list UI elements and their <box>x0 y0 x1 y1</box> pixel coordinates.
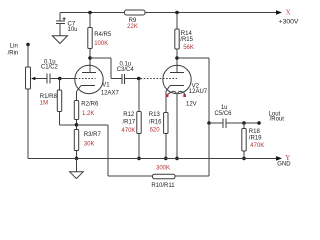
potentiometer volume <box>26 67 36 89</box>
svg-text:/R15: /R15 <box>180 37 193 43</box>
resistor R3/R7 30K <box>74 130 101 159</box>
svg-text:+300V: +300V <box>279 18 299 25</box>
svg-text:/R19: /R19 <box>249 136 262 142</box>
wire pot bottom to ground rail <box>27 89 29 158</box>
svg-text:300K: 300K <box>156 166 170 172</box>
svg-text:R10/R11: R10/R11 <box>151 183 175 189</box>
svg-text:R3/R7: R3/R7 <box>84 132 102 138</box>
svg-text:GND: GND <box>277 162 291 168</box>
heater pin right V2 <box>183 94 186 97</box>
terminal X +300V <box>276 8 299 25</box>
svg-text:56K: 56K <box>183 45 194 51</box>
capacitor C1/C2 0.1u <box>35 59 60 83</box>
wire plate V2 to output <box>177 58 209 123</box>
wire to output terminal <box>244 122 259 124</box>
svg-text:/Rout: /Rout <box>270 117 285 123</box>
svg-text:100K: 100K <box>94 41 108 47</box>
capacitor C5/C6 1u <box>209 105 244 128</box>
wire plate V1 to C3/C4 <box>90 58 122 79</box>
node top rail / R4-R5 <box>88 11 92 15</box>
node plate V2 <box>175 56 179 60</box>
svg-text:470K: 470K <box>250 143 264 149</box>
svg-text:V1: V1 <box>102 83 110 89</box>
svg-text:/Rin: /Rin <box>8 50 19 56</box>
resistor R14/R15 56K <box>175 13 194 59</box>
svg-text:C3/C4: C3/C4 <box>117 67 135 73</box>
node grid V2 <box>137 77 141 81</box>
svg-text:12AU7: 12AU7 <box>189 89 208 95</box>
node grid V1 <box>58 77 62 81</box>
node ground heater CT <box>175 157 179 161</box>
node ground R18 <box>242 157 246 161</box>
resistor R18/R19 470K <box>242 123 264 158</box>
wire input to pot <box>27 45 29 68</box>
resistor R9 22K <box>125 10 146 30</box>
svg-text:1M: 1M <box>40 101 48 107</box>
resistor R1/R8 1M <box>40 79 77 125</box>
resistor R4/R5 100K <box>88 13 112 59</box>
wire ground rail <box>28 157 277 159</box>
wire top B+ rail <box>60 12 277 14</box>
node ground R3/R7 <box>75 157 79 161</box>
svg-text:1.2K: 1.2K <box>82 111 94 117</box>
svg-text:R13: R13 <box>149 112 161 118</box>
svg-text:R1/R8: R1/R8 <box>40 94 58 100</box>
svg-text:30K: 30K <box>84 141 95 147</box>
node output R18 <box>242 121 246 125</box>
node cathode V1 <box>75 123 79 127</box>
ground under C7 <box>52 36 67 44</box>
svg-text:R12: R12 <box>123 112 135 118</box>
wire grid V1 <box>60 78 75 80</box>
resistor R13/R16 620 <box>149 92 168 159</box>
input terminal Lin/Rin <box>8 43 30 57</box>
heater pin left V2 <box>166 94 169 97</box>
capacitor C7 10u <box>56 13 78 36</box>
svg-text:R18: R18 <box>249 129 261 135</box>
svg-text:C5/C6: C5/C6 <box>214 111 232 117</box>
wire grid V2 dashed <box>141 78 178 80</box>
svg-text:620: 620 <box>150 128 161 134</box>
svg-text:470K: 470K <box>121 128 135 134</box>
svg-text:/R16: /R16 <box>149 120 162 126</box>
svg-text:10u: 10u <box>68 27 78 33</box>
output terminal Lout/Rout <box>257 112 284 125</box>
svg-text:R14: R14 <box>181 31 193 37</box>
svg-text:12AX7: 12AX7 <box>101 91 120 97</box>
resistor R2/R6 1.2K <box>74 101 99 130</box>
triode V2 12AU7 <box>163 58 208 108</box>
svg-text:R4/R5: R4/R5 <box>94 32 112 38</box>
svg-text:C1/C2: C1/C2 <box>41 64 59 70</box>
capacitor C3/C4 0.1u <box>117 62 139 85</box>
svg-text:X: X <box>286 8 291 16</box>
wire feedback loop <box>77 123 210 176</box>
svg-text:12V: 12V <box>186 102 197 108</box>
svg-text:Lin: Lin <box>10 44 18 50</box>
ground below R3/R7 <box>70 158 84 178</box>
wire heater center tap V2 <box>176 94 178 159</box>
terminal Y GND <box>276 154 291 168</box>
node ground R12 <box>137 157 141 161</box>
node ground R13 <box>164 157 168 161</box>
svg-text:22K: 22K <box>127 24 138 30</box>
resistor R10/R11 300K <box>151 166 175 189</box>
triode V1 12AX7 <box>75 58 120 101</box>
node output feed <box>207 121 211 125</box>
svg-text:/R17: /R17 <box>123 120 136 126</box>
node plate V1 <box>88 56 92 60</box>
resistor R12/R17 470K <box>121 79 141 159</box>
svg-text:R2/R6: R2/R6 <box>81 101 99 107</box>
node top rail / R14-R15 <box>175 11 179 15</box>
